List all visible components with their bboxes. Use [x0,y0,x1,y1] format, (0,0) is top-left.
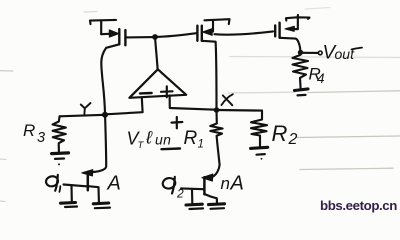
svg-text:A: A [107,173,121,195]
svg-text:A: A [230,173,244,195]
svg-text:R: R [272,121,288,146]
svg-text:ℓ: ℓ [145,128,153,148]
svg-text:R: R [23,121,35,140]
svg-text:bbs.eetop.cn: bbs.eetop.cn [320,198,397,213]
svg-text:un: un [155,132,171,148]
svg-text:2: 2 [176,187,184,201]
svg-text:1: 1 [198,139,204,151]
svg-text:2: 2 [288,131,298,148]
svg-text:out: out [335,46,356,62]
svg-text:R: R [184,128,198,149]
svg-text:4: 4 [317,71,325,86]
svg-text:3: 3 [37,130,45,146]
svg-text:n: n [221,174,230,193]
